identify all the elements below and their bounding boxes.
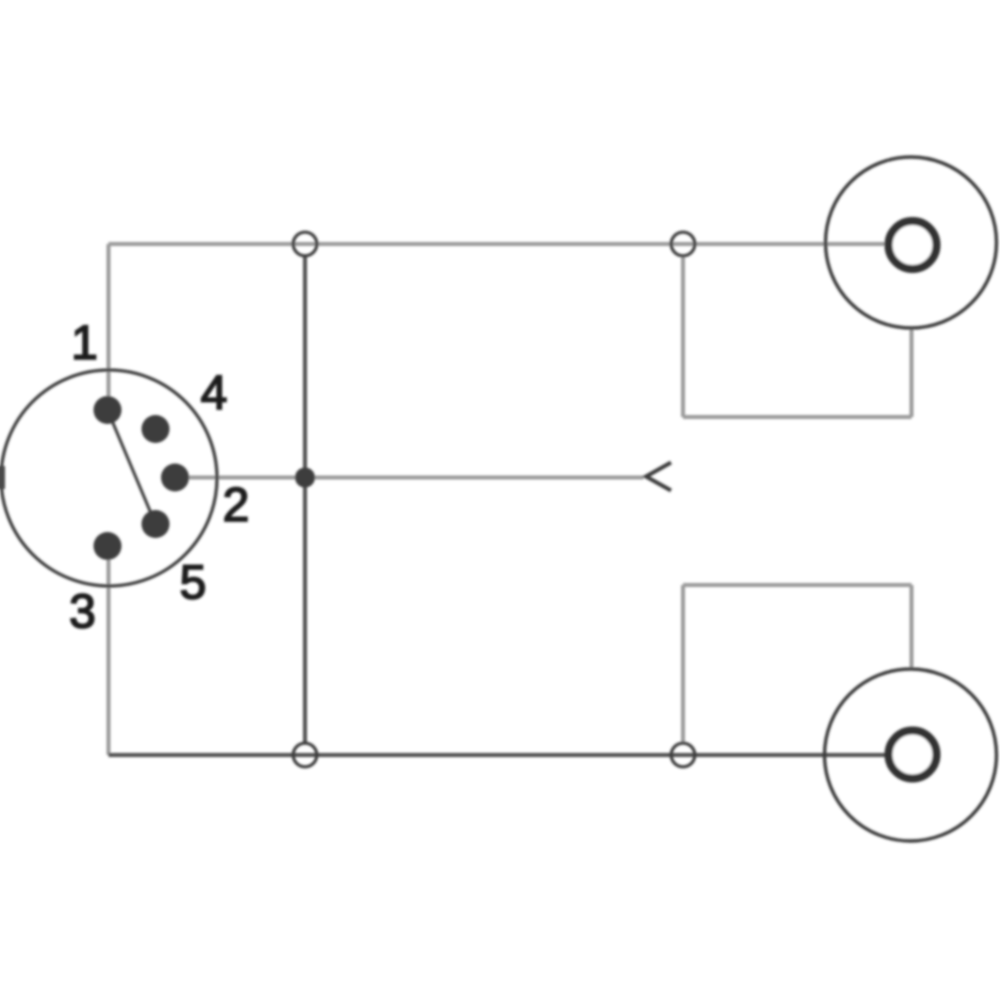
open wire end arrow bbox=[646, 463, 671, 491]
wire: top shield loop vertical up to top RCA shell bbox=[910, 329, 914, 417]
wire: top shield loop vertical from top node bbox=[681, 257, 685, 417]
wire: bottom shield loop vertical down to bottom RCA shell bbox=[910, 585, 914, 670]
node: top-left junction on center bus bbox=[293, 232, 317, 256]
wire: left vertical from top rail down to pin 1 bbox=[107, 244, 111, 412]
RCA plug bottom: center pin ring bbox=[889, 731, 937, 779]
wire: top rail from DIN pin1 column to top RCA center pin bbox=[109, 242, 888, 246]
svg-text:1: 1 bbox=[71, 317, 98, 370]
svg-text:5: 5 bbox=[180, 557, 207, 610]
junction dot on center bus at middle rail bbox=[295, 468, 315, 488]
RCA plug top: shell outline bbox=[826, 157, 997, 328]
node: top-right junction to shield loop bbox=[671, 232, 695, 256]
wire: bottom rail from DIN pin3 column to bottom RCA center pin bbox=[109, 753, 888, 757]
pin 5 bbox=[142, 510, 170, 538]
svg-text:2: 2 bbox=[223, 479, 250, 532]
RCA plug top: center pin ring bbox=[889, 221, 937, 269]
DIN key notch bbox=[0, 466, 5, 489]
wire: center vertical bus between top and bottom nodes bbox=[303, 257, 307, 742]
wire: top shield loop horizontal bbox=[683, 415, 912, 419]
RCA plug bottom: shell outline bbox=[825, 669, 997, 841]
link line pin1-pin5 bbox=[108, 410, 156, 524]
wire: middle rail from pin 2 to open end arrow bbox=[175, 476, 644, 480]
svg-text:4: 4 bbox=[201, 367, 228, 420]
wire: left vertical from pin 3 down to bottom rail bbox=[107, 544, 111, 755]
pin 2 bbox=[161, 464, 189, 492]
wire: bottom shield loop vertical from bottom node bbox=[681, 585, 685, 742]
svg-text:3: 3 bbox=[69, 586, 96, 639]
DIN connector J1 outline bbox=[1, 370, 217, 586]
pin 4 bbox=[142, 415, 170, 443]
pin 1 bbox=[94, 396, 122, 424]
pin 3 bbox=[94, 532, 122, 560]
wire: bottom shield loop horizontal bbox=[683, 583, 912, 587]
node: bottom-left junction on center bus bbox=[293, 743, 317, 767]
node: bottom-right junction to shield loop bbox=[671, 743, 695, 767]
